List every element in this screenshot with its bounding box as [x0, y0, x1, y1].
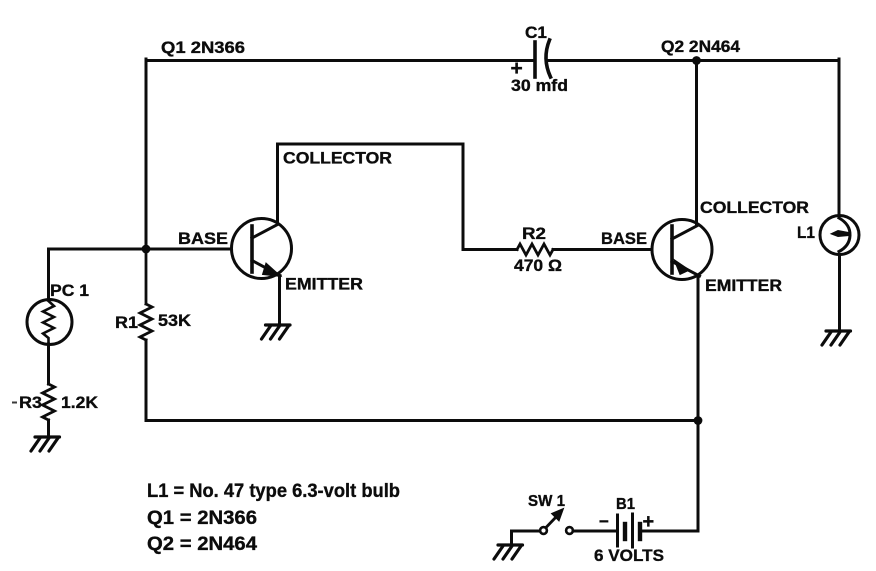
legend line L1 — [147, 481, 400, 502]
svg-text:R1: R1 — [115, 313, 138, 332]
wire lamp L1 to ground — [838, 255, 841, 332]
label COLLECTOR of Q2 — [700, 198, 809, 217]
label battery plus polarity — [643, 511, 655, 533]
label COLLECTOR of Q1 — [283, 149, 392, 168]
svg-text:R3: R3 — [19, 393, 42, 412]
node junction dot at Q1 base / R1 top — [142, 245, 151, 254]
svg-text:R2: R2 — [522, 224, 546, 243]
resistor R3 — [43, 384, 55, 420]
label C1 plus polarity — [511, 57, 523, 80]
battery B1 — [618, 514, 641, 547]
value label 53K — [158, 311, 192, 330]
svg-text:BASE: BASE — [178, 229, 228, 248]
label B1 — [616, 496, 635, 513]
value label 30 mfd — [511, 76, 568, 95]
wire Q1 emitter to ground — [278, 276, 281, 325]
wire base rail of Q1 (from PC1 branch to Q1) — [49, 248, 232, 251]
svg-text:BASE: BASE — [601, 229, 647, 248]
label EMITTER of Q1 — [285, 275, 363, 294]
svg-text:6 VOLTS: 6 VOLTS — [594, 546, 664, 565]
svg-text:30 mfd: 30 mfd — [511, 76, 568, 95]
label C1 — [525, 23, 547, 42]
photocell PC 1 — [27, 300, 72, 345]
resistor R1 — [140, 249, 152, 340]
label Q2 2N464 — [661, 37, 741, 56]
svg-text:1.2K: 1.2K — [61, 393, 99, 412]
label SW 1 — [528, 493, 565, 510]
label battery minus polarity — [599, 512, 609, 531]
wire Q2 collector to top rail — [695, 60, 698, 225]
svg-text:EMITTER: EMITTER — [705, 276, 782, 295]
node junction dot Q2 collector on top rail — [692, 56, 701, 65]
label BASE of Q1 — [178, 229, 228, 248]
label BASE of Q2 — [601, 229, 647, 248]
wire bottom rail — [146, 419, 698, 422]
svg-text:COLLECTOR: COLLECTOR — [283, 149, 392, 168]
wire R1 to bottom rail — [145, 340, 148, 419]
svg-text:EMITTER: EMITTER — [285, 275, 363, 294]
svg-text:Q1 = 2N366: Q1 = 2N366 — [147, 508, 257, 529]
svg-text:B1: B1 — [616, 496, 635, 513]
label L1 — [797, 223, 815, 242]
svg-text:L1 = No. 47 type 6.3-volt bulb: L1 = No. 47 type 6.3-volt bulb — [147, 481, 400, 502]
svg-text:53K: 53K — [158, 311, 192, 330]
resistor R2 — [517, 244, 553, 255]
label Q1 2N366 — [161, 38, 245, 57]
label EMITTER of Q2 — [705, 276, 782, 295]
scan artifact dash before R3 — [12, 402, 17, 404]
value label 1.2K — [61, 393, 99, 412]
wire switch to ground — [512, 531, 540, 545]
wire top rail right segment (C1 right plate to L1 corner) — [548, 59, 839, 62]
svg-text:Q2 = 2N464: Q2 = 2N464 — [147, 534, 257, 555]
ground under Q1 emitter — [262, 325, 291, 339]
wire Q1 collector loop (up, right, down to R2) — [278, 144, 518, 250]
wire Q2 emitter down through bottom rail to battery — [640, 277, 698, 532]
wire top rail left segment (Q1 label corner to C1 left plate) — [146, 59, 532, 249]
node junction dot bottom rail / Q2 emitter — [694, 416, 703, 425]
legend line Q2 — [147, 534, 257, 555]
wire PC1 to R3 — [47, 344, 50, 384]
wire R2 to Q2 base — [553, 248, 652, 251]
wire battery minus to switch — [573, 530, 618, 533]
label R2 — [522, 224, 546, 243]
lamp L1 (bulb) — [820, 216, 859, 255]
svg-text:−: − — [599, 512, 609, 531]
svg-text:L1: L1 — [797, 223, 815, 242]
ground under switch — [494, 545, 523, 559]
wire top rail corner down to lamp L1 — [838, 59, 841, 216]
legend line Q1 — [147, 508, 257, 529]
svg-text:SW 1: SW 1 — [528, 493, 565, 510]
wire R3 to ground — [47, 420, 50, 437]
wire PC1 drop — [47, 249, 50, 300]
capacitor C1 — [535, 40, 551, 77]
switch SW 1 — [540, 509, 573, 534]
svg-text:C1: C1 — [525, 23, 547, 42]
transistor Q2 (2N464) — [652, 220, 712, 280]
svg-text:470 Ω: 470 Ω — [514, 256, 562, 275]
transistor Q1 (2N366) — [232, 219, 292, 279]
ground under R3 — [31, 437, 60, 451]
label R3 — [19, 393, 42, 412]
label PC 1 — [50, 281, 89, 300]
svg-text:PC 1: PC 1 — [50, 281, 89, 300]
svg-text:+: + — [643, 511, 655, 533]
value label 470 ohms — [514, 256, 562, 275]
svg-text:COLLECTOR: COLLECTOR — [700, 198, 809, 217]
ground under lamp L1 — [822, 331, 851, 345]
label R1 — [115, 313, 138, 332]
value label 6 VOLTS — [594, 546, 664, 565]
svg-text:Q1 2N366: Q1 2N366 — [161, 38, 245, 57]
svg-text:Q2 2N464: Q2 2N464 — [661, 37, 741, 56]
